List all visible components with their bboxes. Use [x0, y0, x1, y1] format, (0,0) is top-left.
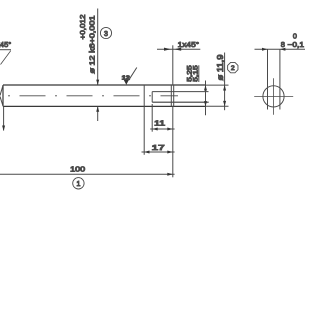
- label 1x45 (right end chamfer): [157, 40, 200, 85]
- step / shoulder line at start of flat section: [143, 85, 145, 106]
- balloon 2 hexagon: [228, 62, 238, 72]
- shared right extension line down to 100 dim: [172, 106, 174, 177]
- dia 11,9 dimension line: [216, 53, 226, 111]
- short arrowed line at lower left: [2, 106, 5, 131]
- svg-text:−0,1: −0,1: [288, 40, 305, 49]
- svg-text:17: 17: [152, 143, 165, 152]
- shaft body outline (side view, dia 12 k6): [3, 85, 206, 106]
- circle of shaft end: [263, 86, 284, 107]
- flat chords / extension lines: [268, 49, 280, 109]
- dia 11,9 dimension extension lines: [206, 85, 229, 106]
- dimension 11: [150, 119, 174, 131]
- svg-text:1x45°: 1x45°: [0, 40, 11, 49]
- svg-text:100: 100: [70, 164, 85, 173]
- svg-text:12: 12: [122, 75, 130, 81]
- svg-text:1x45°: 1x45°: [178, 40, 200, 49]
- milled flat edges: [152, 92, 209, 103]
- svg-text:0: 0: [293, 31, 297, 40]
- svg-text:11: 11: [154, 119, 165, 128]
- dimension 100: [0, 164, 175, 176]
- dimension 17: [142, 143, 175, 154]
- svg-text:3: 3: [104, 31, 108, 38]
- svg-text:ø 12 k6+0,001: ø 12 k6+0,001: [87, 16, 96, 74]
- horizontal centerline: [254, 95, 293, 97]
- dimension 8 0/-0,1: [255, 31, 306, 51]
- chamfer groove lines near right end: [171, 85, 173, 106]
- extension line below shaft at flat start (for dim 11): [151, 104, 153, 132]
- dimension 5,25/5,15 (rotated): [186, 65, 207, 115]
- svg-text:8: 8: [281, 40, 285, 49]
- dimension dia 12 k6 +0,012/+0,001 (rotated text): [78, 15, 96, 74]
- balloon 1: [73, 178, 84, 189]
- svg-text:ø 11,9: ø 11,9: [216, 55, 225, 81]
- shaft centerline: [8, 95, 178, 97]
- extension line below shaft at shoulder (for dim 17): [143, 106, 145, 154]
- vertical centerline: [272, 78, 274, 114]
- svg-text:1: 1: [76, 181, 80, 188]
- balloon 3: [100, 27, 111, 38]
- left end chamfer 1x45: [0, 85, 3, 106]
- svg-text:+0,012: +0,012: [78, 15, 87, 40]
- dia12 dimension line with arrows: [96, 9, 99, 122]
- label 1x45 (left, clipped): [0, 40, 11, 65]
- surface finish symbol: [122, 68, 137, 85]
- svg-text:2: 2: [231, 65, 235, 72]
